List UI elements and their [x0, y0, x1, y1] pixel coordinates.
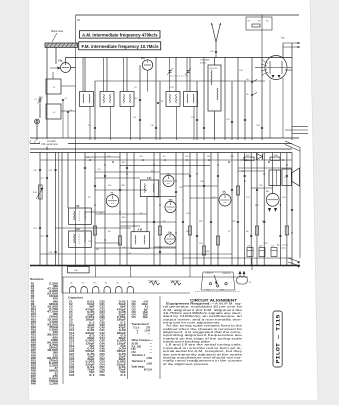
mains voltage selector panel — [201, 272, 235, 292]
svg-text:R8: R8 — [122, 162, 124, 164]
capacitor — [237, 221, 239, 222]
IFT L3 windings — [83, 94, 90, 103]
valve V3 envelope — [219, 194, 231, 206]
IFT L4 can — [100, 92, 114, 107]
capacitor — [84, 167, 86, 168]
wire: vertical mid — [196, 153, 198, 266]
wire: HT rail top section — [66, 57, 293, 59]
potentiometer R14 volume control — [36, 185, 43, 199]
resistor — [202, 246, 205, 255]
wire: stub — [238, 170, 264, 172]
svg-text:4,700: 4,700 — [49, 344, 59, 347]
capacitor C21 — [39, 227, 41, 228]
svg-text:Scale lamps: Scale lamps — [132, 367, 146, 369]
svg-text:C54: C54 — [100, 363, 106, 366]
svg-text:R19: R19 — [241, 171, 244, 173]
svg-text:V6: V6 — [116, 282, 118, 284]
capacitor — [126, 167, 128, 168]
switch unit S3/S6 box — [246, 17, 272, 30]
table: transformer rows — [133, 327, 151, 335]
capacitor — [231, 189, 233, 190]
svg-text:C44: C44 — [230, 156, 233, 158]
wire: horizontal mid — [183, 257, 292, 259]
svg-text:Transformers†: Transformers† — [132, 322, 151, 326]
wire: vertical mid — [84, 153, 86, 266]
svg-text:Resistors: Resistors — [30, 277, 44, 281]
resistor — [255, 226, 258, 235]
svg-text:F.M.: F.M. — [147, 178, 152, 180]
capacitor — [203, 127, 205, 128]
capacitor — [256, 189, 258, 190]
wire: stub — [85, 156, 120, 158]
wire: horizontal mid — [40, 159, 250, 161]
capacitor C13 — [157, 102, 159, 103]
junction — [153, 164, 154, 165]
table: other component rows — [132, 343, 153, 371]
wire: vertical — [282, 43, 284, 58]
junction — [264, 173, 265, 174]
wire: vertical — [244, 81, 246, 140]
wire: gang link dashed — [170, 75, 188, 77]
junction — [228, 161, 230, 163]
thermistor TH2 — [170, 280, 181, 286]
svg-text:R9: R9 — [108, 231, 110, 233]
wire: secondary rail top section — [95, 80, 265, 82]
capacitor — [182, 221, 184, 222]
IFT L7/L8 tall can — [208, 65, 221, 111]
table: resistors rows — [31, 283, 59, 385]
wire: chassis frame left edge — [75, 15, 77, 266]
svg-text:200/250V: 200/250V — [223, 273, 232, 275]
svg-text:R23: R23 — [206, 251, 209, 253]
resistor — [188, 226, 191, 235]
svg-text:C46: C46 — [100, 342, 106, 345]
svg-text:C43: C43 — [210, 51, 213, 53]
IFT A.M. can 3 — [131, 232, 149, 249]
trimmer C1 — [38, 96, 43, 104]
svg-text:C36: C36 — [185, 156, 188, 158]
svg-text:F.M. aerial input: F.M. aerial input — [42, 143, 59, 146]
wire: bus stub — [189, 266, 191, 278]
capacitor C22 — [46, 235, 48, 236]
capacitor C17 — [46, 177, 48, 178]
svg-text:C53: C53 — [259, 185, 262, 187]
wire: vertical mid — [272, 153, 274, 195]
wire: V1a to L1 — [52, 72, 54, 79]
rectifier MR1 — [257, 154, 263, 160]
junction — [84, 232, 85, 233]
wire: horizontal mid — [95, 213, 147, 215]
wire: heater chain left end — [61, 277, 63, 293]
resistor — [158, 226, 161, 235]
capacitor — [263, 221, 265, 222]
wire: vertical mid — [104, 153, 106, 266]
wire: vertical — [237, 58, 239, 141]
svg-text:C26: C26 — [139, 156, 142, 158]
junction — [142, 159, 144, 161]
wire: horizontal mid — [55, 227, 131, 229]
wire: can primary to HT — [82, 58, 84, 92]
svg-text:C45: C45 — [200, 181, 203, 183]
junction — [175, 232, 176, 233]
coil L2 box — [46, 104, 61, 119]
junction — [282, 159, 284, 161]
loudspeaker LS — [282, 168, 300, 186]
svg-text:47pF: 47pF — [119, 327, 127, 330]
capacitor — [210, 221, 212, 222]
svg-text:PILOT — T115: PILOT — T115 — [275, 314, 282, 364]
paragraph: circuit alignment text — [163, 301, 243, 365]
junction — [217, 164, 218, 165]
wire: vertical — [94, 81, 96, 140]
junction — [280, 204, 281, 205]
wire: L1 to L2 — [46, 94, 48, 104]
wire: rail — [30, 152, 292, 154]
svg-text:C57: C57 — [271, 245, 274, 247]
electrolytic C55 — [247, 248, 253, 257]
wire: vertical mid — [217, 153, 219, 266]
svg-text:47,000: 47,000 — [47, 311, 59, 314]
wire: C3 to earth — [62, 101, 64, 138]
wire: vertical mid — [153, 153, 155, 266]
wire: horizontal mid — [120, 164, 210, 166]
IFT L5 windings — [124, 94, 131, 103]
IFT L7/L8 windings — [211, 70, 218, 100]
junction — [291, 232, 292, 233]
wire: V2 fan leads — [261, 60, 268, 75]
svg-text:47,000: 47,000 — [47, 287, 59, 290]
wire: table rule 1 — [62, 277, 64, 384]
switch contact — [251, 80, 257, 83]
svg-text:Thermistor 1: Thermistor 1 — [148, 280, 159, 283]
svg-text:C41: C41 — [179, 187, 182, 189]
wire: V2 right lead — [287, 67, 292, 69]
svg-text:V3: V3 — [93, 282, 95, 284]
wire: vertical — [214, 58, 216, 66]
wire: vertical HT right — [261, 15, 263, 58]
capacitor C3 — [62, 99, 64, 100]
svg-text:C3: C3 — [65, 98, 67, 100]
wire: vertical mid — [159, 153, 161, 266]
wire: vertical — [196, 81, 198, 140]
svg-text:47pF: 47pF — [87, 327, 95, 330]
junction — [164, 159, 166, 161]
ground: chassis earth hatch — [29, 140, 41, 143]
IFT F.M. 3 windings — [144, 184, 154, 193]
valve V4a electrodes — [164, 176, 172, 183]
table: capacitors rows block 3 — [132, 300, 149, 319]
svg-text:50μF: 50μF — [143, 317, 149, 319]
antenna: FM dipole — [211, 23, 221, 58]
capacitor — [291, 209, 293, 210]
wire: horizontal mid — [120, 221, 176, 223]
svg-text:T1 { a: T1 { a — [133, 327, 140, 329]
svg-text:Thermistor 2: Thermistor 2 — [132, 360, 146, 363]
capacitor C12 — [139, 99, 141, 100]
value label: FM IF frequency banner — [79, 42, 161, 50]
wire: vertical — [291, 43, 293, 140]
svg-text:F.M.: F.M. — [75, 206, 80, 208]
svg-text:C40: C40 — [186, 213, 189, 215]
wire: vertical mid — [279, 153, 281, 266]
valve V2 envelope — [106, 195, 118, 207]
wire: can secondary to earth — [193, 107, 195, 141]
svg-text:R29: R29 — [262, 221, 265, 223]
wire: vertical — [175, 58, 177, 92]
wire: HT distribution bus — [30, 265, 300, 267]
svg-text:C47: C47 — [100, 345, 106, 348]
junction — [119, 211, 120, 212]
wire: vertical mid — [182, 153, 184, 266]
wire: vertical — [67, 153, 69, 209]
svg-text:6V 0.3A: 6V 0.3A — [144, 369, 153, 372]
svg-text:V7: V7 — [128, 282, 130, 284]
valve V4c electrodes — [166, 235, 173, 242]
svg-text:R34: R34 — [221, 290, 224, 292]
valve V2 electrodes — [108, 196, 117, 204]
svg-text:C58: C58 — [100, 375, 106, 377]
wire: vertical — [126, 58, 128, 92]
valve V4b envelope — [165, 201, 176, 212]
transformer T2 output — [269, 170, 281, 186]
wire: vertical — [106, 58, 108, 92]
wire: earth rail top section — [30, 137, 299, 139]
svg-text:V1: V1 — [70, 282, 72, 284]
svg-text:A.C. or D.C.: A.C. or D.C. — [277, 244, 289, 247]
wire: horizontal mid — [183, 185, 218, 187]
wire: dashed screen — [195, 291, 240, 293]
electrolytic C57 — [271, 248, 277, 257]
valve V4b electrodes — [166, 202, 174, 209]
svg-text:0.04: 0.04 — [144, 300, 149, 303]
svg-text:C41: C41 — [100, 329, 106, 332]
wire: vertical mid — [237, 153, 239, 266]
capacitor C16 — [39, 169, 41, 170]
svg-text:C25: C25 — [88, 241, 91, 243]
wire: horizontal mid — [240, 159, 292, 161]
wire: vertical — [251, 58, 253, 141]
wire: chassis frame top edge — [76, 14, 300, 16]
capacitor — [94, 127, 96, 128]
IFT F.M. can 3 — [140, 180, 158, 197]
capacitor — [231, 121, 233, 122]
wire: can primary to HT — [123, 58, 125, 92]
junction — [112, 161, 114, 163]
wire: vertical — [84, 58, 86, 92]
svg-text:C40: C40 — [100, 327, 106, 330]
junction — [104, 239, 105, 240]
svg-text:R33: R33 — [206, 290, 209, 292]
capacitor — [286, 175, 288, 176]
svg-text:C50: C50 — [199, 243, 202, 245]
svg-text:L7/L8 470: L7/L8 470 — [209, 68, 217, 70]
wire: stub — [120, 225, 140, 227]
wire: can secondary to earth — [110, 107, 112, 141]
valve V1b envelope — [142, 60, 152, 70]
heater V5 — [237, 272, 253, 285]
valve V5 envelope — [266, 193, 279, 206]
svg-text:L7/L8 (AM): L7/L8 (AM) — [200, 59, 210, 62]
svg-text:R22: R22 — [186, 231, 189, 233]
capacitor C6 — [67, 111, 69, 112]
capacitor — [196, 235, 198, 236]
wire: can secondary to earth — [89, 107, 91, 141]
svg-text:C30: C30 — [139, 213, 142, 215]
wire: vertical — [261, 58, 263, 141]
coax input connector inner — [36, 121, 38, 123]
wire: mains vertical right — [299, 148, 301, 259]
svg-text:110/200V: 110/200V — [205, 273, 214, 275]
valve V2 ratio detector envelope — [265, 56, 287, 80]
coil L1 box — [46, 79, 61, 94]
svg-text:mains: mains — [280, 248, 287, 250]
wire: V2 left lead — [255, 67, 265, 69]
wire: vertical — [224, 58, 226, 141]
svg-text:C29: C29 — [69, 375, 75, 377]
svg-text:S8: S8 — [246, 231, 248, 233]
wire: horizontal mid — [40, 253, 232, 255]
svg-text:1,500: 1,500 — [146, 358, 152, 360]
coax input connector outer — [35, 119, 40, 124]
wire: mains lead down lead — [46, 47, 48, 150]
wire: vertical mid — [119, 153, 121, 266]
wire: horizontal mid — [95, 189, 147, 191]
capacitor — [189, 175, 191, 176]
IFT L4 windings — [104, 94, 111, 103]
svg-text:R25: R25 — [232, 221, 235, 223]
wire: stub — [285, 69, 292, 71]
svg-text:V4: V4 — [163, 221, 165, 223]
wire: V1a to frame — [71, 67, 76, 69]
valve V1a electrodes — [62, 63, 69, 68]
resistor R5 — [252, 24, 260, 27]
valve V2 electrodes — [266, 61, 286, 78]
svg-text:1,970: 1,970 — [144, 330, 150, 332]
wire: heater chain top — [62, 276, 248, 278]
capacitor — [153, 221, 155, 222]
svg-text:470kc/s: 470kc/s — [200, 62, 207, 64]
wire: stub — [85, 211, 105, 213]
svg-text:R34: R34 — [31, 367, 37, 370]
wire: stub — [190, 197, 218, 199]
wire: vertical mid — [263, 153, 265, 266]
svg-text:Co-axial: Co-axial — [47, 141, 56, 143]
wire: C1 lead — [39, 104, 41, 118]
svg-text:Thermistor 2: Thermistor 2 — [170, 280, 181, 283]
svg-text:C14: C14 — [69, 334, 75, 337]
svg-text:A.M. intermediate frequency: A.M. intermediate frequency 470kc/s — [82, 32, 158, 37]
heater V6 — [116, 282, 122, 293]
resistor — [236, 186, 239, 195]
valve V3 electrodes — [221, 195, 230, 203]
junction — [208, 159, 210, 161]
capacitor — [196, 119, 198, 120]
svg-text:0.04: 0.04 — [87, 348, 95, 351]
wire: can secondary to earth — [130, 107, 132, 141]
junction — [286, 164, 287, 165]
wire: can primary to HT — [103, 58, 105, 92]
wire: vertical mid — [256, 153, 258, 266]
wire: horizontal mid — [95, 177, 140, 179]
valve V1b electrodes — [144, 61, 151, 66]
capacitor C23 — [54, 251, 56, 252]
svg-text:1,200: 1,200 — [49, 384, 59, 386]
capacitor — [159, 251, 161, 252]
wire: stub — [251, 187, 272, 189]
wire: vertical mid — [286, 153, 288, 266]
IFT F.M. can 2 — [69, 208, 92, 224]
wire: vertical — [39, 153, 41, 266]
svg-text:S.B., R31: S.B., R31 — [132, 346, 143, 348]
wire: C6 to earth — [67, 113, 69, 138]
junction — [175, 180, 176, 181]
thermistor TH1 — [148, 280, 160, 286]
resistor — [285, 226, 288, 235]
label: PILOT T115 sheet designator — [273, 311, 282, 367]
wire: horizontal mid — [95, 171, 160, 173]
IFT L9 windings — [187, 94, 194, 103]
capacitor C59 block — [68, 267, 90, 273]
variable capacitor C11 gang — [167, 68, 173, 75]
svg-text:S7: S7 — [228, 231, 230, 233]
wire: vertical — [231, 81, 233, 140]
capacitor — [155, 127, 157, 128]
wire: AVC rail — [30, 148, 292, 150]
junction — [104, 164, 105, 165]
resistor R30 — [270, 157, 280, 160]
junction — [186, 159, 188, 161]
svg-text:C49: C49 — [100, 350, 106, 353]
wire: heater chain bottom — [62, 292, 190, 294]
wire: V2 anode down — [269, 80, 271, 139]
electrolytic C56 — [259, 248, 265, 257]
svg-text:0.04: 0.04 — [119, 348, 127, 351]
capacitor C19 — [54, 169, 56, 170]
wire: V1a anode to HT rail — [65, 58, 67, 63]
valve V1a envelope — [61, 63, 71, 73]
heater V1 — [69, 282, 75, 293]
heater V3 — [93, 282, 99, 293]
wire: mains diagonal feeds — [285, 141, 300, 151]
svg-text:R21: R21 — [199, 221, 202, 223]
svg-text:C42: C42 — [100, 332, 106, 335]
heater V7 — [127, 282, 133, 293]
valve V4a envelope — [163, 175, 174, 186]
wire: table rule 3 — [159, 296, 161, 379]
wire: horizontal mid — [147, 196, 176, 198]
resistor R27 — [244, 157, 254, 160]
svg-text:S1-S6: S1-S6 — [132, 343, 139, 345]
svg-text:R40: R40 — [31, 383, 37, 386]
svg-text:R17: R17 — [151, 171, 154, 173]
junction — [133, 225, 134, 226]
capacitor — [261, 127, 263, 128]
svg-text:C48: C48 — [100, 348, 106, 351]
svg-text:C51: C51 — [222, 191, 225, 193]
svg-text:V1a: V1a — [58, 60, 63, 63]
svg-text:R32: R32 — [264, 243, 267, 245]
svg-text:C24: C24 — [97, 169, 100, 171]
junction — [196, 173, 197, 174]
svg-text:b: b — [133, 330, 139, 332]
capacitor — [244, 119, 246, 120]
table: capacitors rows block 1 — [69, 301, 96, 376]
wire: can primary to HT — [186, 58, 188, 92]
wire: stub — [160, 173, 190, 175]
svg-text:C54: C54 — [282, 197, 285, 199]
wire: vertical mid — [250, 153, 252, 266]
wire: coax to earth rail — [36, 124, 38, 140]
